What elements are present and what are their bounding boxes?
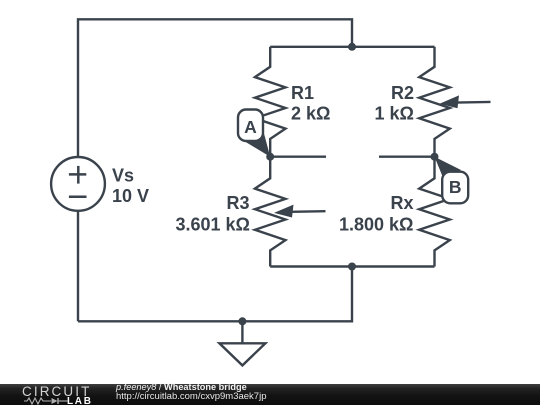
junction dot bottom — [348, 263, 356, 271]
svg-text:10 V: 10 V — [112, 186, 149, 206]
svg-text:R1: R1 — [291, 83, 314, 103]
wire top bus — [270, 46, 434, 48]
node A junction dot — [266, 153, 274, 161]
ground — [219, 343, 265, 365]
wire bottom rail — [78, 267, 352, 322]
svg-text:3.601 kΩ: 3.601 kΩ — [176, 214, 251, 234]
wire left from Vs- down to bottom rail — [77, 211, 79, 322]
CircuitLab logo — [22, 385, 91, 398]
R2 wiper arrow — [440, 95, 491, 108]
wire node A stub right — [270, 155, 326, 157]
svg-text:2 kΩ: 2 kΩ — [291, 103, 330, 123]
footer title text — [116, 383, 247, 393]
svg-text:Vs: Vs — [112, 165, 134, 185]
svg-text:1.800 kΩ: 1.800 kΩ — [339, 214, 414, 234]
svg-text:Rx: Rx — [390, 193, 413, 213]
resistor R3 (potentiometer body) — [255, 157, 286, 267]
wire top-left loop from Vs+ up and across to top junction — [78, 19, 352, 157]
wire bottom bus — [270, 265, 434, 267]
wire node B stub left — [379, 155, 435, 157]
svg-text:R3: R3 — [226, 193, 249, 213]
resistor R1 — [255, 47, 286, 157]
resistor Rx — [419, 157, 450, 267]
resistor R2 (potentiometer body) — [419, 47, 450, 157]
junction dot top — [348, 43, 356, 51]
svg-text:R2: R2 — [391, 83, 414, 103]
junction dot ground — [238, 317, 246, 325]
footer bar — [0, 384, 540, 405]
voltage source Vs — [51, 157, 105, 211]
R3 wiper arrow — [274, 205, 326, 218]
footer url text — [116, 392, 266, 402]
node B flag — [435, 157, 469, 204]
svg-text:A: A — [244, 117, 257, 137]
node B junction dot — [431, 153, 439, 161]
node A flag — [238, 110, 270, 157]
svg-text:B: B — [449, 177, 462, 197]
svg-text:1 kΩ: 1 kΩ — [375, 103, 414, 123]
wire ground stub — [241, 321, 243, 343]
